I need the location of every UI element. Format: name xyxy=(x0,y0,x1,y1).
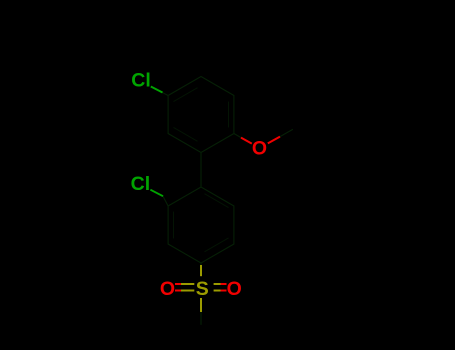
svg-text:Cl: Cl xyxy=(131,69,151,91)
svg-text:S: S xyxy=(196,278,209,300)
svg-text:O: O xyxy=(160,278,175,300)
svg-text:O: O xyxy=(252,138,267,160)
svg-text:O: O xyxy=(227,278,242,300)
svg-text:Cl: Cl xyxy=(131,173,151,195)
